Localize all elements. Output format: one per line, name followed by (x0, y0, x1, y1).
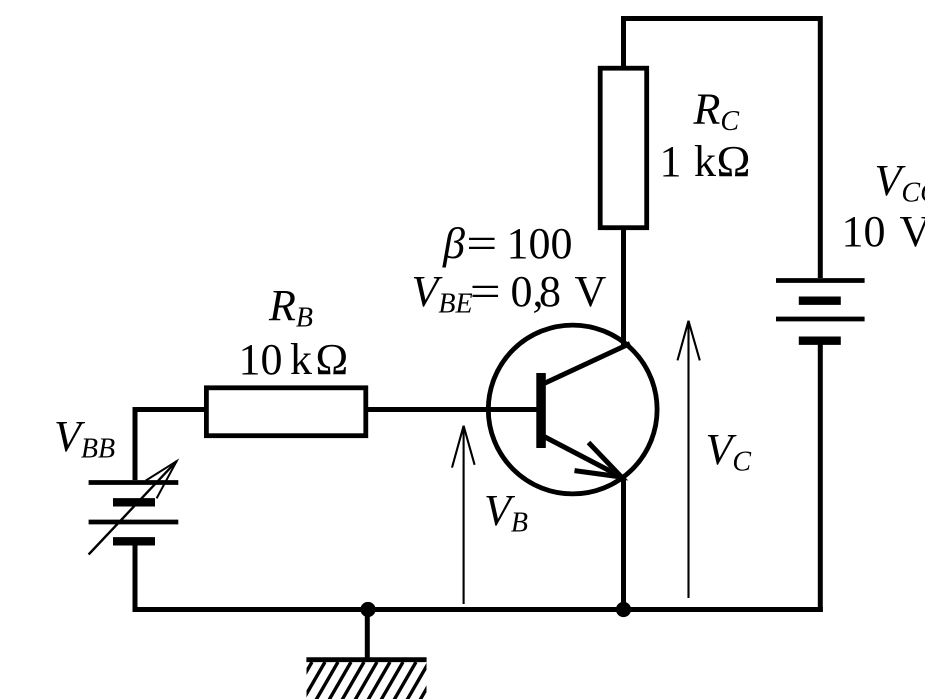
wire VCC battery bottom to bottom rail (818, 343, 823, 612)
battery VBB plate long 2 (89, 520, 179, 525)
voltage arrow VC (678, 321, 700, 598)
voltage arrow VB (452, 426, 475, 604)
wire VBB battery bottom to bottom rail (133, 544, 138, 612)
svg-text:10V: 10V (842, 207, 925, 256)
battery VBB variable arrow head (146, 461, 177, 498)
node junction dot emitter (616, 602, 631, 617)
transistor Q1 circle (488, 325, 657, 494)
ground hatch (290, 662, 442, 699)
wire emitter vertical to bottom rail (621, 476, 626, 612)
wire bottom rail (133, 607, 823, 612)
battery VCC plate short thick 2 (799, 337, 841, 345)
ground bar (306, 657, 426, 662)
battery VBB plate short thick 1 (113, 498, 155, 506)
resistor RB (206, 388, 365, 436)
transistor Q1 collector diagonal (544, 344, 630, 384)
transistor Q1 emitter arrow head (575, 443, 622, 478)
node junction dot ground (360, 602, 375, 617)
battery VBB plate long 1 (89, 480, 179, 485)
battery VCC plate long 2 (776, 317, 865, 322)
svg-text:β=100: β=100 (442, 219, 573, 268)
wire top rail from RC top to VCC battery (624, 19, 821, 279)
battery VBB plate short thick 2 (113, 537, 155, 545)
ground stub wire (365, 610, 370, 659)
svg-text:10kΩ: 10kΩ (239, 335, 349, 384)
battery VBB variable arrow shaft (89, 461, 177, 554)
transistor Q1 base bar (536, 373, 546, 448)
transistor Q1 emitter diagonal (544, 437, 622, 478)
resistor RC (600, 68, 647, 228)
wire base from battery VBB through RB to base bar (135, 410, 537, 481)
battery VCC plate long top (776, 278, 865, 283)
svg-text:1kΩ: 1kΩ (660, 137, 751, 186)
wire collector vertical from RC to transistor (621, 228, 626, 347)
battery VCC plate short thick 1 (799, 297, 841, 305)
